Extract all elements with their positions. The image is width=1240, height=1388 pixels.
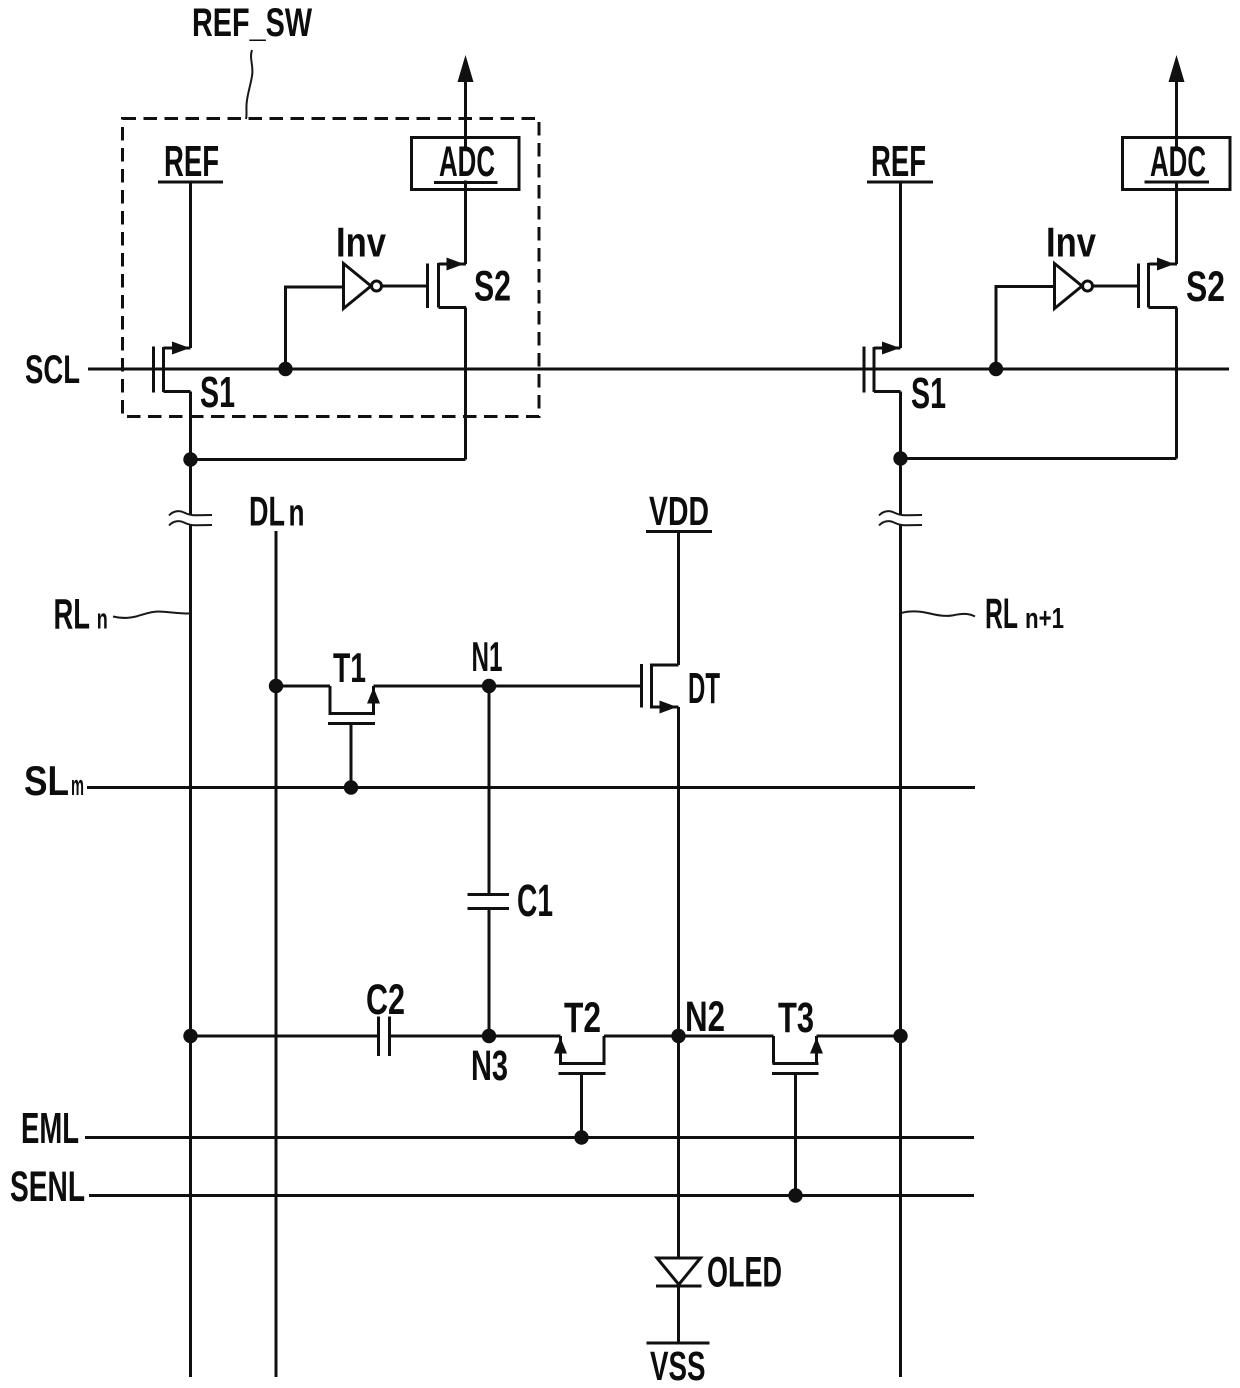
svg-text:S2: S2 <box>474 263 511 311</box>
svg-text:C1: C1 <box>517 875 553 926</box>
wire REF vertical (left) <box>189 182 192 348</box>
svg-text:n: n <box>97 604 108 636</box>
wire N3 row: RLn to C2 <box>191 1035 378 1038</box>
svg-text:DT: DT <box>688 664 720 713</box>
svg-text:SENL: SENL <box>10 1163 85 1211</box>
svg-text:OLED: OLED <box>707 1249 782 1297</box>
inverter Inv (right) <box>1055 264 1093 309</box>
node dot S1 source junction (right) <box>893 451 907 465</box>
label ADC (left) <box>434 138 498 186</box>
wire inverter input from SCL (right) <box>996 287 1055 370</box>
pointer squiggle REF_SW <box>246 50 252 119</box>
label RLn <box>54 591 108 639</box>
wire N1 row: DLn to T1 <box>276 685 330 688</box>
svg-text:SL: SL <box>24 757 69 804</box>
node dot S1 source junction (left) <box>183 452 197 466</box>
wire inverter output to S2 gate (left) <box>382 285 427 288</box>
inverter Inv (left) <box>344 264 382 309</box>
dashed box REF_SW <box>123 119 540 417</box>
capacitor C1 <box>468 895 510 909</box>
svg-text:n: n <box>289 493 305 535</box>
transistor T1 <box>328 686 380 788</box>
node dot RLn-C2 row <box>183 1029 197 1043</box>
wire N3 row: T3 to RLn+1 <box>817 1035 901 1038</box>
label REF (right) <box>867 137 933 186</box>
svg-text:Inv: Inv <box>1046 219 1097 266</box>
svg-text:N2: N2 <box>685 993 725 1041</box>
svg-text:VDD: VDD <box>649 488 709 534</box>
wire RLn vertical <box>189 392 192 1378</box>
wire ADC output vertical (left) <box>464 80 467 460</box>
svg-text:n+1: n+1 <box>1025 603 1064 635</box>
wire REF vertical (right) <box>899 182 902 348</box>
wire N3 row: T2 to N2 to T3 <box>604 1035 774 1038</box>
arrow ADC output (left) <box>458 55 474 82</box>
transistor S1 (left) <box>154 342 191 393</box>
svg-text:S1: S1 <box>911 369 946 418</box>
wire OLED cathode to VSS <box>677 1285 680 1343</box>
diode OLED <box>656 1258 702 1286</box>
pointer squiggle RLn <box>113 612 190 619</box>
transistor S2 (right) <box>1139 258 1178 309</box>
transistor DT <box>642 664 679 714</box>
capacitor C2 <box>379 1017 390 1057</box>
svg-text:SCL: SCL <box>25 348 80 392</box>
pointer squiggle RLn+1 <box>901 611 975 616</box>
wire N3 row: C2 to T2 <box>391 1035 561 1038</box>
node dot T2 gate on EML <box>574 1130 588 1144</box>
label RLn+1 <box>985 590 1064 638</box>
wire SCL horizontal net <box>88 368 1229 371</box>
label DLn <box>249 488 305 535</box>
svg-text:RL: RL <box>985 590 1018 638</box>
label SLm <box>24 757 84 804</box>
wire inverter input from SCL (left) <box>286 287 344 369</box>
svg-text:REF: REF <box>871 137 926 186</box>
arrow ADC output (right) <box>1169 55 1185 82</box>
svg-text:RL: RL <box>54 591 91 639</box>
node dot T1 gate on SLm <box>344 780 358 794</box>
wire connector S1-S2 sources (left) <box>191 458 466 461</box>
svg-text:S1: S1 <box>200 368 235 417</box>
wire VDD vertical to DT drain <box>677 532 680 666</box>
svg-text:ADC: ADC <box>439 138 495 186</box>
wire ADC output vertical (right) <box>1175 80 1178 459</box>
box ADC (left) <box>412 138 520 190</box>
node dot DLn-T1 <box>269 679 283 693</box>
wire connector S1-S2 sources (right) <box>901 457 1177 460</box>
label REF (left) <box>158 137 223 186</box>
transistor T2 <box>554 1036 606 1138</box>
wire DT source down through N2 to OLED anode <box>677 707 680 1258</box>
svg-text:Inv: Inv <box>336 219 387 266</box>
wire N1 vertical to C1 <box>488 686 491 894</box>
svg-text:T2: T2 <box>564 994 601 1042</box>
svg-text:DL: DL <box>249 488 285 535</box>
transistor T3 <box>772 1036 823 1196</box>
transistor S1 (right) <box>864 342 901 393</box>
node dot N2 <box>671 1029 685 1043</box>
svg-text:EML: EML <box>21 1104 79 1153</box>
wire EML horizontal net <box>85 1136 974 1139</box>
node dot SCL-inverter (right) <box>989 362 1003 376</box>
svg-text:N1: N1 <box>472 633 503 680</box>
node dot T3-RLn+1 <box>893 1029 907 1043</box>
wire N1 row: T1 to DT gate <box>374 685 641 688</box>
svg-text:C2: C2 <box>366 976 405 1024</box>
wire inverter output to S2 gate (right) <box>1093 285 1138 288</box>
ground VSS bar <box>647 1342 710 1345</box>
transistor S2 (left) <box>428 258 467 309</box>
wire SENL horizontal net <box>89 1194 974 1197</box>
node dot SCL-inverter (left) <box>278 362 292 376</box>
svg-text:T1: T1 <box>333 644 366 691</box>
svg-text:REF_SW: REF_SW <box>192 1 312 45</box>
wire C1 to N3 vertical <box>488 910 491 1037</box>
label ADC (right) <box>1145 138 1210 186</box>
wire SLm horizontal net <box>87 786 975 789</box>
label VDD <box>646 488 712 534</box>
box ADC (right) <box>1123 138 1231 190</box>
node dot T3 gate on SENL <box>788 1188 802 1202</box>
svg-text:VSS: VSS <box>650 1343 706 1388</box>
svg-text:N3: N3 <box>471 1042 508 1090</box>
svg-text:ADC: ADC <box>1150 138 1206 186</box>
wire DLn vertical <box>275 531 278 1377</box>
svg-text:m: m <box>71 770 84 802</box>
wire RLn+1 vertical <box>899 392 902 1378</box>
break symbol on RLn+1 <box>879 511 922 525</box>
node dot N3 <box>482 1029 496 1043</box>
svg-text:REF: REF <box>164 137 219 186</box>
svg-text:T3: T3 <box>778 994 814 1042</box>
node dot N1 <box>482 679 496 693</box>
break symbol on RLn <box>169 511 212 525</box>
svg-text:S2: S2 <box>1186 263 1225 311</box>
